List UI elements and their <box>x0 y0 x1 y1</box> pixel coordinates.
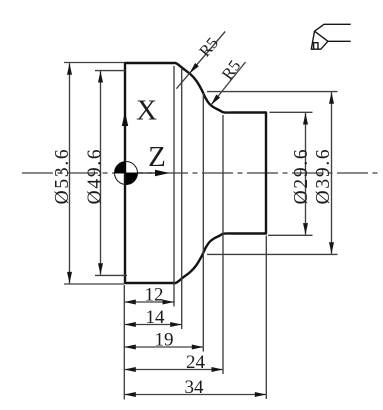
X axis arrow (on left face) <box>122 112 128 127</box>
radius leader R5 (concave fillet) <box>209 56 245 106</box>
Z axis arrow <box>137 172 156 174</box>
dimension D29.6 <box>268 112 313 235</box>
dimension 24 <box>124 352 223 373</box>
svg-text:R5: R5 <box>218 56 245 83</box>
extension line left face (below part) <box>123 285 125 400</box>
svg-text:19: 19 <box>155 330 174 351</box>
dimension 14 <box>124 307 181 328</box>
dimension D53.6 <box>52 63 125 285</box>
svg-text:Ø53.6: Ø53.6 <box>52 148 73 205</box>
svg-text:24: 24 <box>186 352 206 373</box>
svg-text:12: 12 <box>145 285 164 306</box>
dimension 34 <box>124 377 266 398</box>
svg-text:Z: Z <box>148 141 166 173</box>
radius leader R5 (convex fillet) <box>176 32 225 89</box>
dimension 19 <box>124 330 203 351</box>
svg-text:X: X <box>136 95 157 127</box>
dimension D49.6 <box>84 71 127 276</box>
extension line z=12 (through part) <box>173 66 175 307</box>
part outline <box>125 63 266 283</box>
centerline (axis) <box>22 172 378 174</box>
svg-text:Ø29.6: Ø29.6 <box>291 148 312 205</box>
lathe tool icon <box>311 24 350 49</box>
extension line z=24 (through part) <box>222 115 224 374</box>
dimension D39.6 <box>207 92 338 255</box>
svg-text:Ø49.6: Ø49.6 <box>84 148 105 205</box>
extension line z=19 (through part) <box>202 93 204 352</box>
svg-text:R5: R5 <box>195 33 222 60</box>
svg-text:Ø39.6: Ø39.6 <box>313 148 334 205</box>
svg-text:34: 34 <box>185 377 205 398</box>
extension line right face z=34 <box>265 236 267 400</box>
svg-text:14: 14 <box>146 307 166 328</box>
origin symbol <box>115 162 138 185</box>
extension line z=14 (through part) <box>181 69 183 329</box>
dimension 12 <box>124 285 174 306</box>
